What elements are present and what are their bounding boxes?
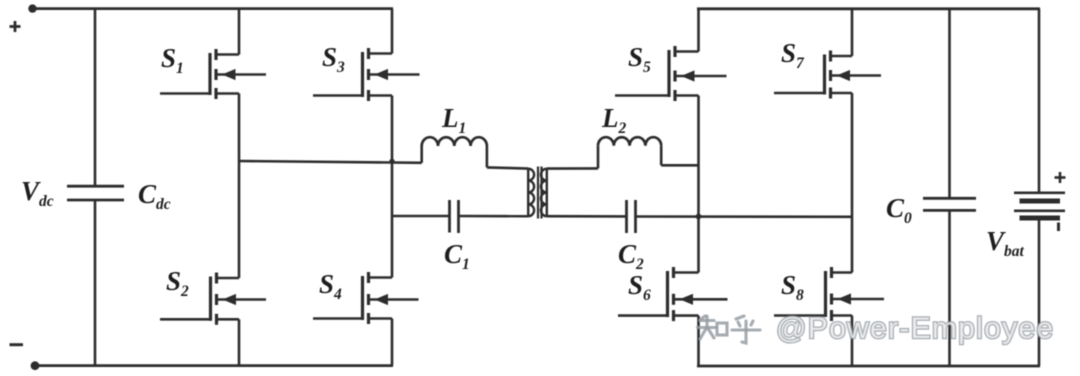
svg-text:@Power-Employee: @Power-Employee [776, 312, 1054, 345]
